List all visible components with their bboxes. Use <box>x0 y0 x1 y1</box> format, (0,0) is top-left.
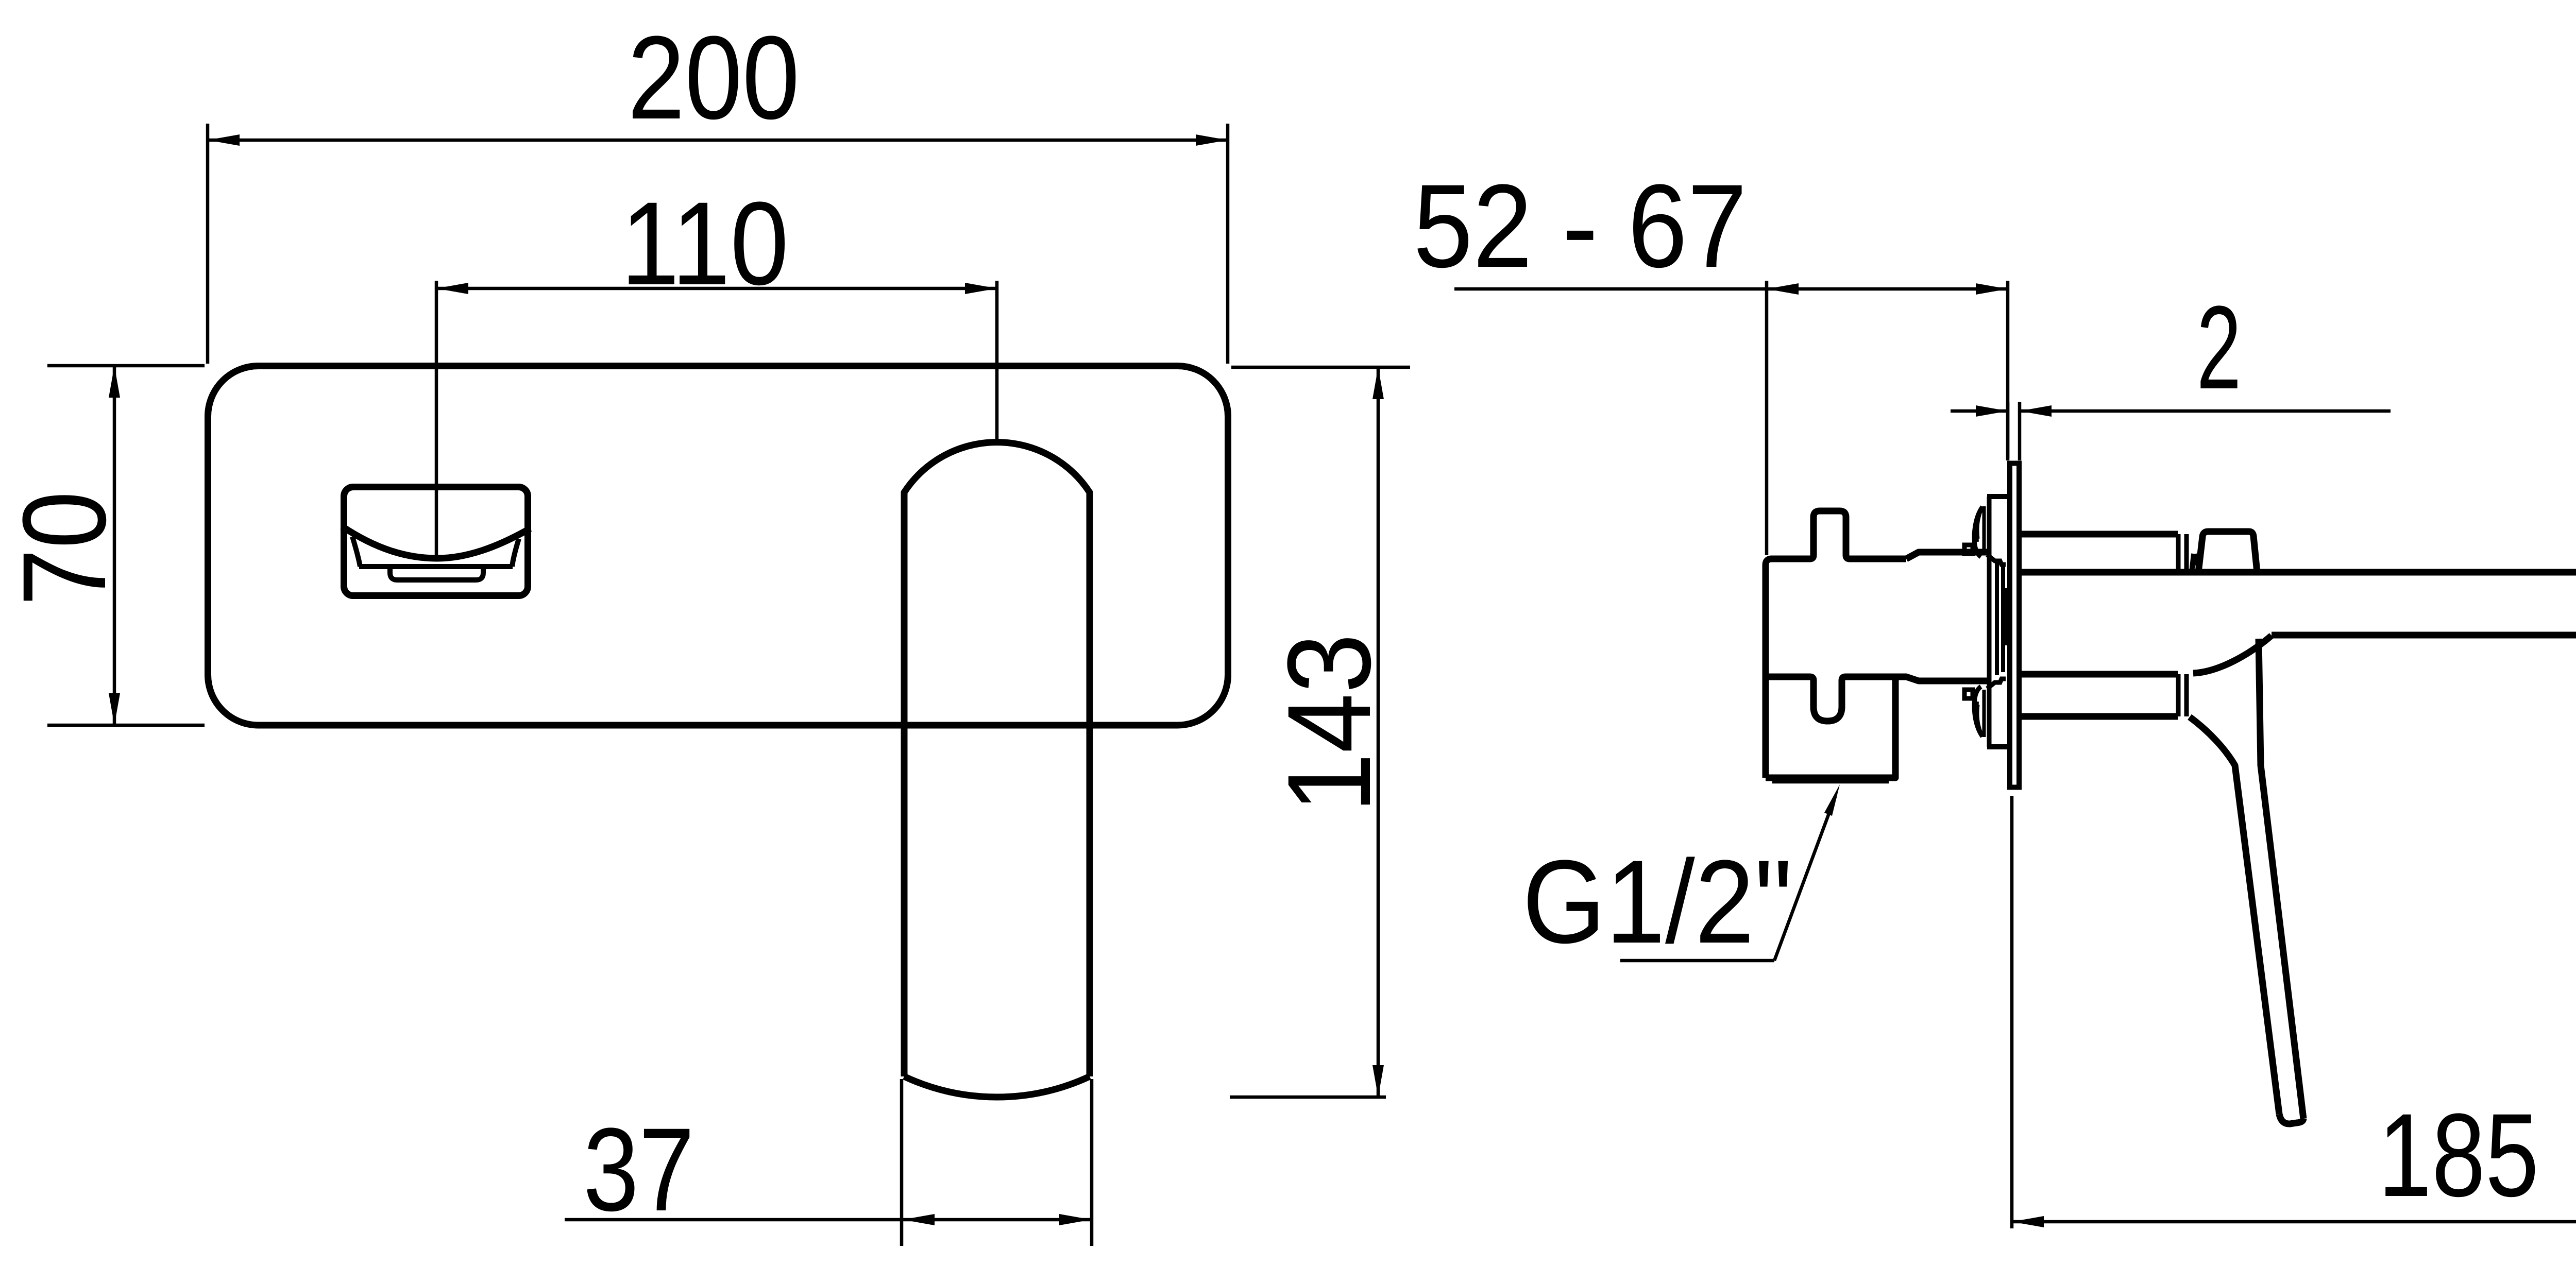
svg-text:200: 200 <box>628 11 800 144</box>
svg-text:2: 2 <box>2197 281 2242 414</box>
svg-text:185: 185 <box>2378 1089 2539 1221</box>
svg-text:G1/2": G1/2" <box>1522 835 1792 968</box>
svg-text:110: 110 <box>621 177 789 310</box>
svg-text:70: 70 <box>0 491 130 606</box>
svg-text:52 - 67: 52 - 67 <box>1413 160 1747 292</box>
svg-text:143: 143 <box>1263 634 1395 813</box>
svg-text:37: 37 <box>583 1103 694 1236</box>
